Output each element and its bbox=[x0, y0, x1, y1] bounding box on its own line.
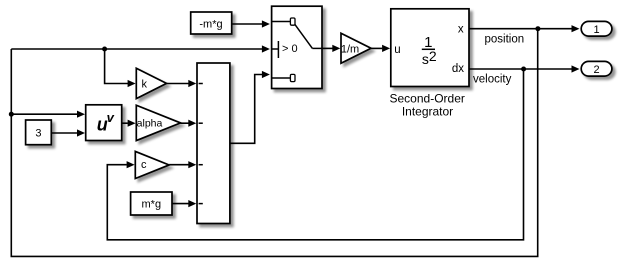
svg-text:1/m: 1/m bbox=[341, 43, 359, 55]
svg-text:dx: dx bbox=[452, 63, 464, 75]
svg-text:alpha: alpha bbox=[137, 118, 163, 130]
svg-text:velocity: velocity bbox=[473, 74, 512, 86]
svg-text:k: k bbox=[142, 79, 148, 91]
svg-text:x: x bbox=[458, 23, 464, 35]
svg-text:m*g: m*g bbox=[142, 199, 162, 211]
svg-text:-m*g: -m*g bbox=[199, 18, 222, 30]
svg-text:Integrator: Integrator bbox=[402, 104, 453, 118]
svg-text:position: position bbox=[484, 34, 524, 46]
svg-text:1: 1 bbox=[593, 24, 599, 36]
svg-text:3: 3 bbox=[35, 127, 41, 139]
svg-text:2: 2 bbox=[593, 64, 599, 76]
svg-text:> 0: > 0 bbox=[282, 43, 298, 55]
svg-text:c: c bbox=[141, 159, 147, 171]
svg-text:u: u bbox=[394, 44, 400, 56]
svg-text:s2: s2 bbox=[422, 48, 437, 67]
